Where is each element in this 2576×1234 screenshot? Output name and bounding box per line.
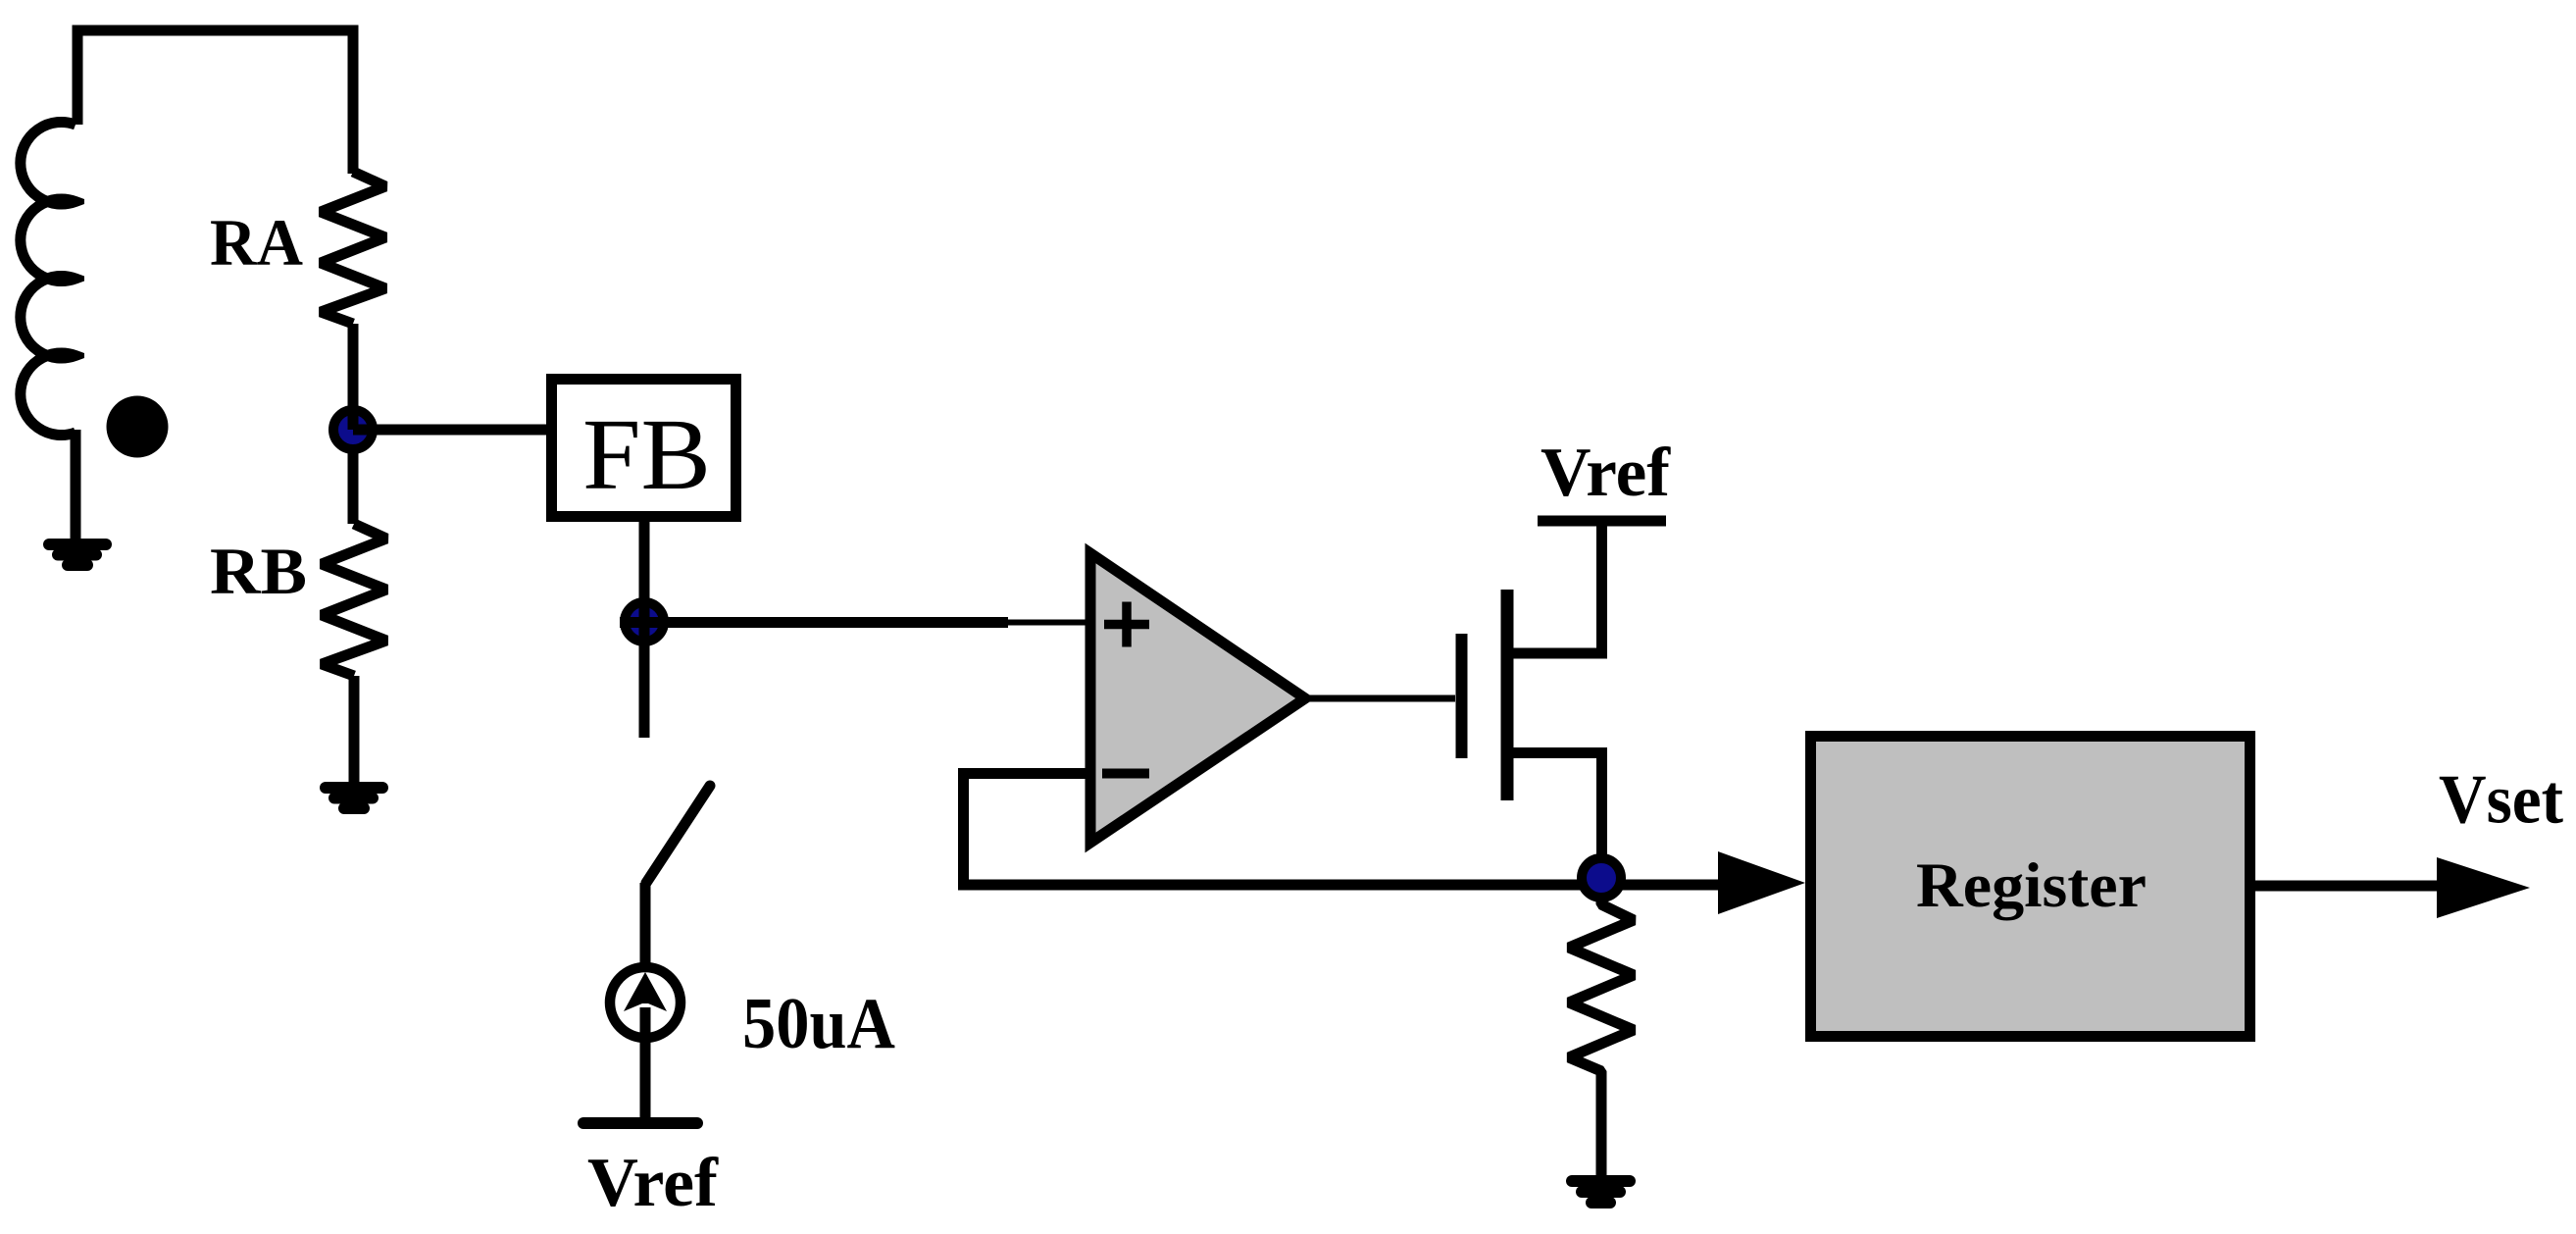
ground under inductor xyxy=(49,544,106,565)
inductor L1 xyxy=(21,122,76,435)
source stub xyxy=(1513,753,1602,879)
ground under R2 xyxy=(1572,1181,1630,1203)
svg-text:Vset: Vset xyxy=(2439,762,2563,839)
arrow into Register xyxy=(1718,851,1805,914)
ground under RB xyxy=(326,788,382,808)
op-amp + marking xyxy=(1104,602,1149,647)
Vref terminal bar (bottom) xyxy=(583,1117,697,1129)
wire FB to below node B (over node) xyxy=(639,522,650,738)
op-amp U1 xyxy=(1090,553,1305,843)
svg-text:FB: FB xyxy=(582,398,711,511)
current source 50uA xyxy=(610,967,681,1038)
transistor M1 gate bar xyxy=(1456,634,1468,758)
node C (drawn over wires) xyxy=(1582,858,1621,898)
wire top loop from inductor to RA xyxy=(77,30,353,174)
wire node B to op-amp + input xyxy=(620,617,1008,628)
resistor RA xyxy=(321,172,385,324)
svg-text:50uA: 50uA xyxy=(742,984,895,1064)
FB box xyxy=(552,380,736,517)
thin wire segment into + input xyxy=(1008,620,1089,626)
wire RB to ground xyxy=(349,676,360,782)
svg-text:RB: RB xyxy=(210,534,307,608)
op-amp - marking xyxy=(1102,769,1149,779)
drain stub xyxy=(1513,521,1602,653)
wire node A to FB box xyxy=(353,425,546,436)
switch S1 xyxy=(646,786,710,883)
wire over node A vertical (from RA to node center) xyxy=(348,324,359,430)
svg-text:RA: RA xyxy=(210,205,303,280)
Register output wire xyxy=(2255,881,2437,892)
node A xyxy=(333,410,373,449)
resistor RB xyxy=(322,524,386,676)
svg-text:Vref: Vref xyxy=(1541,435,1671,511)
node B xyxy=(625,602,664,642)
resistor R2 below node C xyxy=(1569,878,1634,1181)
feedback wire from - input to node C xyxy=(964,774,1719,886)
Register box xyxy=(1811,737,2250,1037)
Vref terminal bar (top) xyxy=(1538,516,1666,527)
transistor M1 channel bar xyxy=(1501,590,1514,800)
svg-text:Register: Register xyxy=(1916,850,2147,921)
wire RA to node A (under node) xyxy=(348,324,359,524)
black dot (phase dot) xyxy=(107,396,169,458)
wire switch to current source xyxy=(640,883,651,971)
svg-text:Vref: Vref xyxy=(587,1145,719,1221)
op-amp output wire xyxy=(1308,695,1455,702)
wire inductor bottom to ground xyxy=(71,430,81,540)
output arrowhead xyxy=(2437,857,2530,918)
